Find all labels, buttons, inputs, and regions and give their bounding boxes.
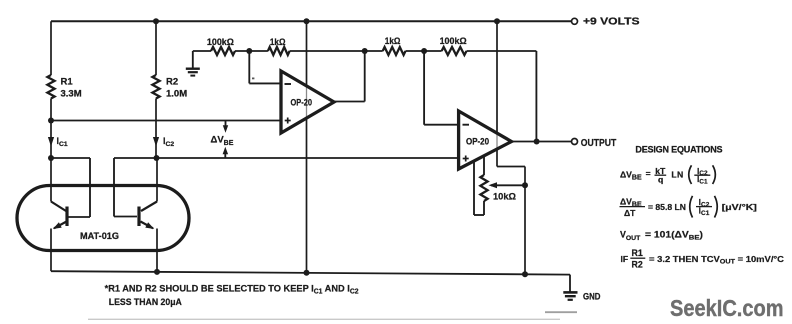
svg-text:1kΩ: 1kΩ [270,37,286,47]
svg-text:R2: R2 [166,77,178,88]
svg-text:100kΩ: 100kΩ [440,36,468,46]
svg-text:= 85.8 LN: = 85.8 LN [648,202,686,212]
svg-text:OUTPUT: OUTPUT [581,138,617,149]
svg-text:GND: GND [583,292,601,302]
svg-text:R1: R1 [61,77,74,88]
svg-text:OP-20: OP-20 [291,98,313,109]
svg-text:100kΩ: 100kΩ [207,37,235,47]
svg-text:1kΩ: 1kΩ [385,36,401,46]
svg-text:OP-20: OP-20 [466,137,489,147]
svg-text:DESIGN EQUATIONS: DESIGN EQUATIONS [635,144,722,154]
svg-text:ΔT: ΔT [624,208,636,218]
svg-text:q: q [658,175,663,185]
svg-text:10kΩ: 10kΩ [493,192,517,202]
svg-text:MAT-01G: MAT-01G [80,231,119,241]
svg-text:LESS THAN 20μA: LESS THAN 20μA [109,297,182,308]
svg-text:IF: IF [621,254,629,264]
svg-text:+9 VOLTS: +9 VOLTS [583,17,640,28]
svg-text:=: = [646,169,651,179]
svg-text:R1: R1 [632,248,643,258]
svg-text:LN: LN [671,169,683,179]
svg-text:R2: R2 [632,259,643,269]
svg-text:1.0M: 1.0M [166,88,187,99]
svg-text:SeekIC.com: SeekIC.com [670,295,784,321]
svg-text:3.3M: 3.3M [61,88,82,99]
svg-text:[μV/°K]: [μV/°K] [722,202,757,212]
